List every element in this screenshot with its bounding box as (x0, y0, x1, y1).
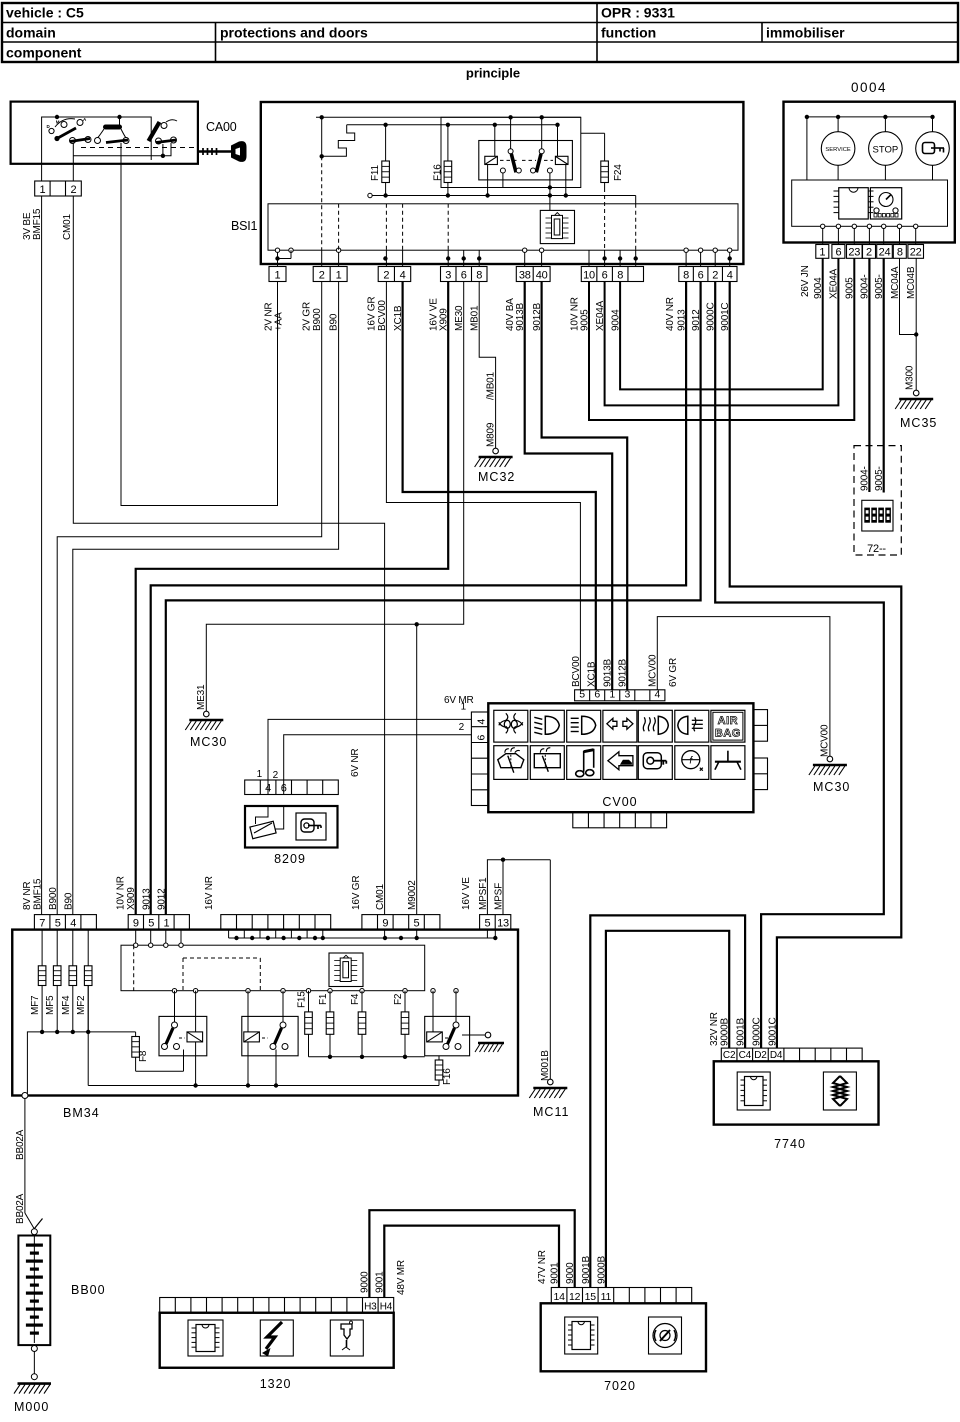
key linkage dashed (81, 147, 198, 149)
0004 pin circles (821, 224, 918, 244)
svg-text:3: 3 (445, 269, 451, 281)
svg-text:M300: M300 (905, 365, 916, 390)
wire MCV00 (657, 617, 830, 757)
1320 pin strip (160, 1298, 394, 1313)
svg-text:F15: F15 (297, 991, 308, 1008)
0004 gauge icon (870, 188, 901, 219)
svg-text:M809: M809 (486, 422, 497, 447)
svg-text:2: 2 (70, 184, 76, 196)
BM34 fuse F16 (435, 1056, 453, 1086)
wire 8209 pin4 to CV00 pin1 (257, 719, 472, 794)
svg-text:STOP: STOP (873, 145, 899, 156)
BM34 relay K11 (136, 991, 207, 1086)
header table (2, 3, 958, 62)
svg-text:9001: 9001 (375, 1271, 386, 1293)
BM34 relay K12 (242, 991, 298, 1086)
svg-text:5: 5 (148, 917, 154, 929)
svg-text:9001B: 9001B (736, 1018, 747, 1046)
BM34 fuse F2 (393, 991, 409, 1057)
svg-text:+AA: +AA (274, 312, 285, 331)
svg-text:9000C: 9000C (752, 1018, 763, 1046)
svg-text:8: 8 (683, 269, 689, 281)
svg-text:BSI1: BSI1 (231, 219, 258, 233)
svg-text:H3: H3 (364, 1302, 377, 1313)
BSI1 pin group 40V BA (516, 267, 550, 282)
svg-text:M9002: M9002 (407, 880, 418, 910)
1320 lightning icon (260, 1320, 293, 1357)
svg-text:4: 4 (655, 689, 661, 701)
svg-text:7740: 7740 (774, 1137, 806, 1151)
wire BMF15 (41, 196, 43, 915)
BM34 pin group 10V NR (128, 915, 189, 930)
wire B90 (73, 282, 339, 915)
svg-text:domain: domain (6, 25, 56, 41)
svg-text:F4: F4 (350, 993, 361, 1005)
7740 coil icon (823, 1072, 856, 1110)
BM34 box (12, 930, 518, 1096)
BSI1 pin group 2V NR (269, 267, 286, 282)
BM34 fuse MF7 (30, 930, 46, 1032)
7020 box (541, 1303, 706, 1371)
svg-text:4: 4 (727, 269, 733, 281)
wire M001B (540, 860, 551, 1081)
svg-text:12: 12 (569, 1291, 581, 1303)
BSI1 pin group 40V NR (679, 267, 737, 282)
svg-text:MF4: MF4 (61, 995, 72, 1015)
svg-text:10V NR: 10V NR (116, 876, 127, 910)
svg-text:14: 14 (553, 1291, 565, 1303)
battery BB00 (18, 1229, 105, 1345)
BSI1 box (261, 102, 744, 264)
svg-text:BB00: BB00 (71, 1283, 106, 1297)
svg-text:38: 38 (519, 269, 531, 281)
svg-text:6: 6 (594, 689, 600, 701)
svg-text:1: 1 (275, 269, 281, 281)
svg-text:7020: 7020 (604, 1379, 636, 1393)
svg-text:vehicle : C5: vehicle : C5 (6, 5, 84, 21)
BSI1 pin group 16V GR (378, 267, 411, 282)
svg-text:/MB01: /MB01 (486, 371, 497, 400)
7020 pin row (551, 1288, 691, 1304)
CA00 middle switch (95, 117, 130, 164)
wire 9001C (730, 282, 902, 1049)
svg-text:M001B: M001B (540, 1050, 551, 1081)
svg-text:2: 2 (712, 269, 718, 281)
svg-text:1: 1 (163, 917, 169, 929)
BSI1 internal wire A (316, 115, 581, 119)
key lamp (916, 117, 950, 180)
BSI1 pin group 2V GR (313, 267, 347, 282)
svg-text:function: function (601, 25, 656, 41)
wire MC04B / M300 (905, 258, 919, 390)
svg-text:1: 1 (39, 184, 45, 196)
1320 labels (360, 1260, 408, 1295)
0004 IC chip icon (834, 188, 874, 219)
svg-text:protections and doors: protections and doors (220, 25, 368, 41)
svg-text:MC04B: MC04B (906, 266, 917, 299)
BSI1 drop to pin B900 dashed (321, 156, 323, 250)
svg-text:MCV00: MCV00 (820, 724, 831, 757)
svg-text:9001: 9001 (550, 1262, 561, 1284)
svg-text:BM34: BM34 (63, 1106, 100, 1120)
svg-text:1: 1 (257, 769, 263, 780)
ground MC30 left (185, 711, 227, 749)
svg-text:4: 4 (70, 917, 76, 929)
instrument cluster 0004 box (784, 102, 955, 243)
fuse F16 (433, 125, 452, 196)
BM34 top labels (22, 876, 505, 910)
BSI1 transponder symbol (540, 210, 574, 243)
ground MC30 right (809, 756, 850, 794)
CV00 icons (494, 710, 745, 779)
svg-text:D2: D2 (754, 1050, 767, 1061)
svg-text:CV00: CV00 (602, 795, 637, 809)
svg-text:6V NR: 6V NR (350, 749, 361, 777)
svg-text:CA00: CA00 (206, 120, 237, 134)
wire 9000C (715, 282, 884, 1049)
svg-text:6: 6 (602, 269, 608, 281)
svg-text:MC32: MC32 (478, 470, 515, 484)
svg-text:F8: F8 (138, 1050, 149, 1062)
svg-text:principle: principle (466, 66, 520, 81)
BM34 pin group 8V NR (34, 915, 96, 930)
wire ME30 (206, 282, 463, 712)
svg-text:2V GR: 2V GR (302, 302, 313, 331)
wire B900 (57, 282, 322, 915)
svg-text:1320: 1320 (260, 1377, 292, 1391)
svg-text:BAG: BAG (715, 727, 741, 739)
relay K1 (479, 117, 573, 195)
svg-text:2: 2 (273, 770, 279, 781)
svg-text:6: 6 (461, 269, 467, 281)
svg-text:0004: 0004 (851, 80, 887, 95)
CV00 left pins 4,6 (459, 702, 489, 806)
BSI1 internal wire B (347, 123, 560, 127)
0004 top wire (805, 115, 935, 180)
wire 9012B (542, 282, 628, 690)
svg-text:6V MR: 6V MR (444, 695, 474, 706)
CV00 pin row top (575, 689, 665, 701)
BM34 internal ground (470, 1032, 504, 1052)
STOP lamp (869, 117, 903, 180)
svg-text:23: 23 (848, 247, 860, 259)
CA00 left rotary switch (46, 117, 91, 164)
svg-text:72--: 72-- (867, 543, 886, 555)
svg-text:M: M (56, 120, 60, 125)
svg-text:immobiliser: immobiliser (766, 25, 845, 41)
svg-text:16V NR: 16V NR (204, 876, 215, 910)
wire 9001B (590, 915, 745, 1287)
svg-text:6: 6 (835, 247, 841, 259)
7740 box (714, 1061, 879, 1124)
fuse F24 (581, 133, 624, 188)
svg-text:MC11: MC11 (533, 1105, 569, 1119)
8209 pin strip (245, 780, 339, 795)
svg-text:8: 8 (897, 247, 903, 259)
svg-text:9005-: 9005- (874, 466, 885, 491)
svg-text:10: 10 (583, 269, 595, 281)
svg-text:4: 4 (476, 719, 488, 725)
BM34 fuse MF2 (76, 930, 92, 1032)
svg-text:8V NR: 8V NR (22, 882, 33, 910)
svg-text:1: 1 (609, 689, 615, 701)
72-- connector symbol (862, 500, 893, 531)
wire MPSF1 (487, 860, 550, 915)
BM34 fuse F15 (297, 991, 313, 1057)
wire 8209 pin6 to CV00 pin2 (273, 735, 472, 795)
relay K2 (522, 117, 568, 195)
BM34 lower link (309, 1055, 425, 1059)
svg-text:OPR : 9331: OPR : 9331 (601, 5, 675, 21)
svg-text:9001B: 9001B (581, 1256, 592, 1284)
svg-text:9000B: 9000B (720, 1018, 731, 1046)
BM34 MF2 drop (87, 986, 89, 1086)
svg-text:22: 22 (910, 247, 922, 259)
svg-text:16V GR: 16V GR (351, 876, 362, 910)
svg-text:ME31: ME31 (196, 684, 207, 710)
svg-text:B90: B90 (64, 892, 75, 910)
svg-text:MF7: MF7 (30, 995, 41, 1015)
BSI1 bus rectangle (268, 204, 738, 250)
svg-text:CM01: CM01 (375, 883, 386, 910)
svg-text:2: 2 (383, 269, 389, 281)
wire 9004- (860, 258, 871, 492)
0004 pins (816, 245, 924, 259)
connector CA00 pins 1,2 (35, 164, 82, 196)
BM34 inner bus rect (121, 930, 458, 993)
ground MC32 (475, 448, 516, 484)
wire BB02A (15, 1099, 43, 1230)
BM34 fuse F8 (132, 1032, 149, 1071)
SERVICE lamp (821, 117, 855, 180)
7740 IC icon (737, 1072, 770, 1110)
BM34 fuse MF4 (61, 930, 77, 1032)
wire X909 (136, 282, 449, 915)
fuse F11 (370, 125, 389, 196)
svg-text:MC35: MC35 (900, 416, 937, 430)
svg-text:B900: B900 (48, 887, 59, 910)
wire 9012 (166, 282, 701, 915)
svg-text:CM01: CM01 (62, 213, 73, 240)
svg-text:D4: D4 (770, 1050, 783, 1061)
svg-text:5: 5 (414, 917, 420, 929)
BM34 pin strip 16V NR (221, 915, 331, 930)
svg-text:MCV00: MCV00 (648, 654, 659, 687)
BM34 BB02A terminal (22, 1093, 28, 1099)
svg-text:X909: X909 (126, 887, 137, 910)
svg-text:6: 6 (281, 782, 287, 794)
svg-text:13: 13 (497, 917, 509, 929)
svg-text:MC30: MC30 (813, 780, 850, 794)
ground MC11 (529, 1079, 569, 1119)
wire 9005- (874, 258, 885, 492)
svg-text:AIR: AIR (718, 715, 738, 727)
svg-text:6: 6 (698, 269, 704, 281)
0004 wire labels (800, 265, 917, 299)
svg-text:4: 4 (400, 269, 406, 281)
BM34 pin group 16V GR (362, 915, 440, 930)
wire 9000 (369, 1210, 574, 1297)
svg-text:8: 8 (617, 269, 623, 281)
BSI1 wire labels (264, 297, 732, 331)
svg-text:16V VE: 16V VE (461, 877, 472, 910)
svg-text:M000: M000 (14, 1400, 49, 1414)
wire 9005 (589, 258, 854, 420)
BSI1 pin stubs (275, 248, 732, 267)
1320 injector icon (330, 1320, 363, 1356)
svg-text:9001C: 9001C (768, 1018, 779, 1046)
svg-text:BB02A: BB02A (15, 1193, 26, 1224)
7020 IC icon (565, 1317, 598, 1354)
svg-text:9013: 9013 (142, 888, 153, 910)
wire XC1B (403, 282, 596, 690)
BSI1 pin group 10V NR (581, 267, 643, 282)
transponder aerial 8209 box (245, 806, 338, 848)
svg-text:F24: F24 (613, 164, 624, 181)
BM34 fuse F4 (350, 991, 366, 1057)
CV00 top wire labels (571, 654, 679, 687)
CA00 right switch (149, 120, 178, 156)
svg-text:3: 3 (624, 689, 630, 701)
svg-text:C4: C4 (739, 1050, 752, 1061)
BM34 supply rail (27, 1030, 135, 1094)
svg-text:24: 24 (879, 247, 891, 259)
svg-text:9000: 9000 (565, 1262, 576, 1284)
wire MB01 (479, 282, 495, 449)
wire 9000B (606, 931, 729, 1288)
BSI1 pin group 16V VE (441, 267, 488, 282)
svg-text:9013B: 9013B (603, 659, 614, 687)
BM34 pin group 16V VE (480, 915, 511, 930)
connector 72-- dashed box (854, 446, 901, 555)
7740 labels (709, 1012, 779, 1046)
CV00 bottom cells (573, 812, 667, 828)
CV00 box (488, 703, 753, 812)
key symbol (198, 141, 247, 162)
BM34 internal top bus (229, 930, 498, 941)
7020 sensor icon (649, 1317, 682, 1354)
svg-text:6V GR: 6V GR (668, 658, 679, 687)
svg-text:F11: F11 (370, 164, 381, 181)
7740 pin row (721, 1048, 862, 1061)
svg-text:8209: 8209 (274, 852, 306, 866)
8209 coil symbol (250, 806, 284, 839)
BSI1 dashed internal drops (339, 188, 636, 250)
svg-text:F16: F16 (433, 164, 444, 181)
svg-text:9012B: 9012B (618, 659, 629, 687)
wire XE04A (605, 258, 839, 405)
svg-text:8: 8 (476, 269, 482, 281)
svg-text:1: 1 (336, 269, 342, 281)
1320 box (160, 1313, 394, 1368)
svg-text:5: 5 (55, 917, 61, 929)
svg-text:6: 6 (476, 735, 488, 741)
svg-text:XC1B: XC1B (587, 661, 598, 687)
BM34 bottom rail (88, 1083, 439, 1087)
svg-text:B90: B90 (329, 313, 340, 331)
svg-text:9: 9 (133, 917, 139, 929)
svg-text:9: 9 (382, 917, 388, 929)
svg-text:40: 40 (536, 269, 548, 281)
CV00 right cells (753, 710, 767, 790)
BM34 fuse F1 (318, 991, 334, 1057)
svg-text:MF5: MF5 (45, 995, 56, 1015)
wire 9013 (151, 282, 686, 915)
wire MC04A (900, 258, 917, 334)
svg-text:16V GR: 16V GR (367, 297, 378, 331)
svg-text:F1: F1 (318, 993, 329, 1005)
svg-text:5: 5 (579, 689, 585, 701)
7020 labels (537, 1250, 608, 1284)
svg-text:BB02A: BB02A (15, 1129, 26, 1160)
1320 IC icon (188, 1320, 223, 1356)
svg-text:C2: C2 (723, 1050, 736, 1061)
svg-text:MC30: MC30 (190, 735, 227, 749)
svg-text:9000B: 9000B (597, 1256, 608, 1284)
svg-text:47V NR: 47V NR (537, 1250, 548, 1284)
svg-text:5: 5 (484, 917, 490, 929)
BM34 relay K13 (425, 991, 470, 1056)
svg-text:26V JN: 26V JN (800, 265, 811, 297)
svg-text:SERVICE: SERVICE (825, 147, 850, 153)
wire +AA (121, 164, 278, 506)
BM34 fuse MF5 (45, 930, 61, 1032)
svg-text:2: 2 (866, 247, 872, 259)
svg-text:48V MR: 48V MR (396, 1260, 407, 1295)
svg-text:F16: F16 (442, 1068, 453, 1085)
svg-text:32V NR: 32V NR (709, 1012, 720, 1046)
svg-text:2: 2 (459, 722, 465, 733)
BSI1 relay enclosure (441, 117, 581, 210)
BSI1 internal wire C (368, 193, 636, 204)
svg-text:4: 4 (265, 782, 271, 794)
wire M9002 (415, 622, 419, 915)
BSI1 staircase link (320, 117, 355, 158)
wire 9013B (525, 282, 613, 690)
svg-text:MF2: MF2 (76, 995, 87, 1015)
wire CM01 (73, 196, 384, 915)
svg-text:15: 15 (585, 1291, 597, 1303)
svg-text:component: component (6, 45, 82, 61)
BM34 transponder symbol (329, 953, 363, 987)
svg-text:1: 1 (819, 247, 825, 259)
svg-text:9012: 9012 (157, 888, 168, 910)
svg-text:9000: 9000 (360, 1271, 371, 1293)
svg-text:BCV00: BCV00 (571, 656, 582, 687)
ignition switch CA00 box (11, 102, 198, 164)
0004 inner box (792, 180, 948, 226)
CA00 internal wire W1 (42, 115, 152, 164)
ground MC35 (895, 390, 937, 430)
CA00 internal wire W2 (73, 143, 171, 158)
wire BCV00 (386, 282, 580, 690)
wire 9001 (384, 1226, 559, 1298)
svg-text:11: 11 (601, 1291, 612, 1303)
svg-text:F2: F2 (393, 993, 404, 1005)
svg-text:40V NR: 40V NR (665, 297, 676, 331)
wire MPSF (501, 858, 505, 915)
svg-text:2: 2 (319, 269, 325, 281)
svg-text:7: 7 (39, 917, 45, 929)
svg-text:BMF15: BMF15 (33, 878, 44, 910)
wire 9004 (620, 258, 823, 389)
ground M000 (14, 1345, 51, 1414)
svg-text:H4: H4 (380, 1302, 393, 1313)
svg-text:9004-: 9004- (860, 466, 871, 491)
8209 key icon (296, 813, 326, 840)
